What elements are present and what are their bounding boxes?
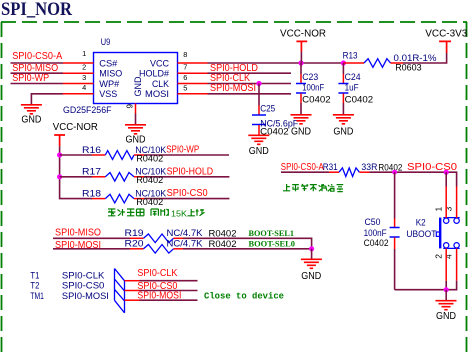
svg-text:R0402: R0402 (136, 153, 163, 164)
svg-text:R19: R19 (125, 228, 144, 239)
svg-text:4: 4 (82, 83, 86, 92)
capacitor C24 (338, 63, 348, 114)
junction C24 tap (341, 60, 346, 65)
wire R16 to label (144, 154, 229, 156)
resistor R17 (92, 173, 144, 182)
svg-text:VCC-3V3: VCC-3V3 (425, 29, 467, 40)
junction ground rail (444, 287, 449, 292)
ground symbol boot-sel (301, 259, 322, 268)
svg-text:C25: C25 (260, 104, 275, 115)
wire VCC-NOR pull-up bus (60, 146, 92, 198)
switch pin 1 (445, 187, 447, 219)
testpoint pin stub row2 (125, 290, 140, 292)
resistor R18 (92, 194, 144, 203)
wire net SPI0-CS0-A row1 (11, 62, 64, 64)
svg-text:SPI_NOR: SPI_NOR (1, 0, 73, 20)
svg-text:MOSI: MOSI (145, 89, 169, 100)
svg-text:TM1: TM1 (30, 291, 44, 302)
svg-text:GND: GND (301, 271, 321, 282)
svg-text:SPI0-MOSI: SPI0-MOSI (137, 291, 181, 302)
svg-text:5: 5 (183, 83, 187, 92)
pin 5 stub (178, 93, 208, 95)
svg-text:C24: C24 (345, 72, 362, 83)
pin 7 stub (178, 72, 208, 74)
testpoint pin stub row1 (125, 280, 140, 282)
ground symbol at C25 (248, 135, 269, 144)
svg-text:VCC-NOR: VCC-NOR (53, 122, 98, 133)
ic U9 body (94, 53, 178, 104)
svg-text:U9: U9 (101, 37, 111, 48)
pin 1 stub (63, 62, 94, 64)
wire net SPI0-MOSI row5 (208, 93, 292, 95)
svg-text:R17: R17 (82, 167, 101, 178)
svg-text:R16: R16 (82, 145, 101, 156)
pin 3 stub (63, 83, 94, 85)
resistor R31 (329, 168, 370, 177)
ground symbol at VSS (21, 105, 42, 114)
testpoint connector symbol (115, 269, 125, 313)
ground symbol at pin9 (125, 125, 146, 134)
svg-text:R0402: R0402 (209, 239, 237, 250)
switch pin 2 (445, 248, 447, 280)
svg-text:1: 1 (434, 207, 444, 212)
wire net SPI0-MISO (R19 row) (53, 237, 130, 239)
svg-text:1uF: 1uF (345, 83, 359, 94)
ground symbol at C24 (333, 115, 354, 124)
svg-text:C0402: C0402 (345, 94, 374, 105)
switch K2 body (436, 218, 459, 249)
power symbol VCC-NOR top (296, 41, 307, 51)
svg-text:R0402: R0402 (209, 228, 237, 239)
junction switch pin1 tap (444, 170, 449, 175)
svg-text:C50: C50 (365, 217, 381, 228)
wire pin9 to ground (135, 114, 137, 125)
wire VCC-NOR drop (300, 52, 302, 64)
svg-text:C23: C23 (302, 72, 318, 83)
svg-text:GND: GND (249, 146, 269, 157)
svg-text:C0402: C0402 (364, 238, 389, 249)
svg-text:R0603: R0603 (395, 62, 422, 73)
resistor R20 (130, 245, 183, 254)
wire pin1 drop (445, 172, 447, 186)
svg-text:SPI0-MOSI: SPI0-MOSI (55, 240, 101, 251)
pin 4 stub (63, 93, 94, 95)
svg-text:R0402: R0402 (136, 175, 163, 186)
svg-text:C0402: C0402 (302, 94, 331, 105)
wire net SPI0-WP row3 (11, 83, 64, 85)
capacitor C23 (296, 63, 306, 114)
junction C50 tap (392, 170, 397, 175)
power symbol VCC-NOR left (54, 135, 65, 146)
note chinese: press at power-up to flash (283, 184, 343, 192)
svg-text:SPI0-WP: SPI0-WP (12, 73, 49, 84)
svg-text:R20: R20 (125, 239, 144, 250)
svg-text:R0402: R0402 (136, 197, 163, 208)
svg-text:SPI0-HOLD: SPI0-HOLD (167, 166, 214, 177)
svg-text:GD25F256F: GD25F256F (63, 105, 112, 116)
svg-text:8: 8 (183, 50, 187, 59)
wire VSS to ground (31, 94, 63, 105)
wire to R16 (60, 154, 92, 156)
svg-text:SPI0-MISO: SPI0-MISO (55, 227, 101, 238)
switch pin 4 (456, 248, 458, 280)
svg-text:BOOT-SEL1: BOOT-SEL1 (249, 228, 295, 238)
wire VCC rail pin8 to R13 (208, 62, 344, 64)
wire tp row1 (140, 280, 198, 282)
svg-text:R31: R31 (323, 162, 338, 173)
svg-text:R18: R18 (82, 188, 101, 199)
capacitor C25 (252, 84, 266, 135)
svg-text:Close to device: Close to device (204, 291, 284, 302)
wire to R17 (60, 176, 92, 178)
svg-text:NC/4.7K: NC/4.7K (167, 239, 204, 250)
resistor R19 (130, 234, 183, 243)
svg-text:100nF: 100nF (302, 83, 324, 94)
svg-text:BOOT-SEL0: BOOT-SEL0 (249, 239, 296, 249)
svg-text:SPI0-MOSI: SPI0-MOSI (62, 291, 109, 302)
svg-text:GND: GND (436, 311, 456, 322)
wire junction to ground (K2) (445, 290, 447, 301)
ground symbol K2 (436, 301, 457, 310)
wire junction to ground (311, 249, 313, 259)
svg-text:6: 6 (183, 73, 187, 82)
svg-text:GND: GND (291, 127, 311, 138)
wire R17 to label (144, 176, 229, 178)
wire net SPI0-CLK row6 (208, 83, 292, 85)
pin 9 stub (135, 104, 137, 114)
wire R31 to switch (370, 172, 457, 186)
svg-text:R13: R13 (343, 51, 358, 62)
ground symbol at C23 (291, 115, 312, 124)
svg-text:15K: 15K (171, 208, 187, 218)
svg-text:GND: GND (133, 76, 144, 96)
svg-text:SPI0-CS0-A: SPI0-CS0-A (281, 162, 324, 173)
svg-text:VCC-NOR: VCC-NOR (280, 29, 326, 40)
junction C25 tap on CLK (256, 81, 261, 86)
switch pin 3 (456, 187, 458, 219)
wire R13 to VCC-3V3 (403, 53, 447, 63)
svg-text:NC/4.7K: NC/4.7K (167, 228, 204, 239)
svg-text:9: 9 (126, 104, 135, 109)
wire net SPI0-MISO row2 (11, 72, 64, 74)
svg-text:SPI0-CS0-A: SPI0-CS0-A (12, 51, 62, 62)
svg-text:K2: K2 (416, 218, 426, 229)
pin 6 stub (178, 83, 208, 85)
wire R18 to label (144, 198, 229, 200)
svg-text:2: 2 (82, 63, 86, 72)
capacitor C50 (390, 172, 400, 290)
junction VCC-NOR rail (298, 60, 303, 65)
wire switch bottom to ground rail (395, 281, 457, 290)
wire net SPI0-MOSI (R20 row) (53, 248, 130, 250)
svg-text:3: 3 (444, 207, 454, 212)
note chinese: default use internal 15K pullup (108, 209, 169, 216)
wire R20 to boot-sel0 junction (183, 248, 312, 250)
svg-text:GND: GND (333, 127, 353, 138)
testpoint pin stub row3 (125, 299, 140, 301)
wire tp row3 (140, 299, 198, 301)
wire tp row2 (140, 290, 198, 292)
svg-text:1: 1 (82, 49, 86, 58)
resistor R13 (343, 59, 403, 68)
svg-text:2: 2 (434, 254, 444, 259)
power symbol VCC-3V3 (439, 41, 451, 53)
svg-text:GND: GND (21, 115, 41, 126)
junction boot-sel (309, 246, 314, 251)
svg-text:3: 3 (82, 73, 86, 82)
svg-text:7: 7 (183, 63, 187, 72)
svg-text:SPI0-CLK: SPI0-CLK (137, 268, 177, 279)
pin 2 stub (63, 72, 94, 74)
svg-text:SPI0-CS0: SPI0-CS0 (167, 188, 209, 199)
svg-text:SPI0-MOSI: SPI0-MOSI (210, 83, 256, 94)
svg-text:4: 4 (443, 254, 453, 259)
wire net SPI0-HOLD row7 (208, 72, 292, 74)
svg-text:VSS: VSS (99, 89, 117, 100)
pin 8 stub (178, 62, 208, 64)
svg-text:SPI0-WP: SPI0-WP (166, 145, 199, 156)
junction R16 tap (57, 152, 62, 157)
junction R17 tap (57, 174, 62, 179)
wire pin2 drop (445, 281, 447, 290)
wire R19 to boot-sel1 corner (183, 238, 312, 249)
resistor R16 (92, 151, 144, 160)
wire net SPI0-CS0-A (R31 row) (281, 171, 329, 173)
svg-text:UBOOT: UBOOT (406, 229, 436, 240)
